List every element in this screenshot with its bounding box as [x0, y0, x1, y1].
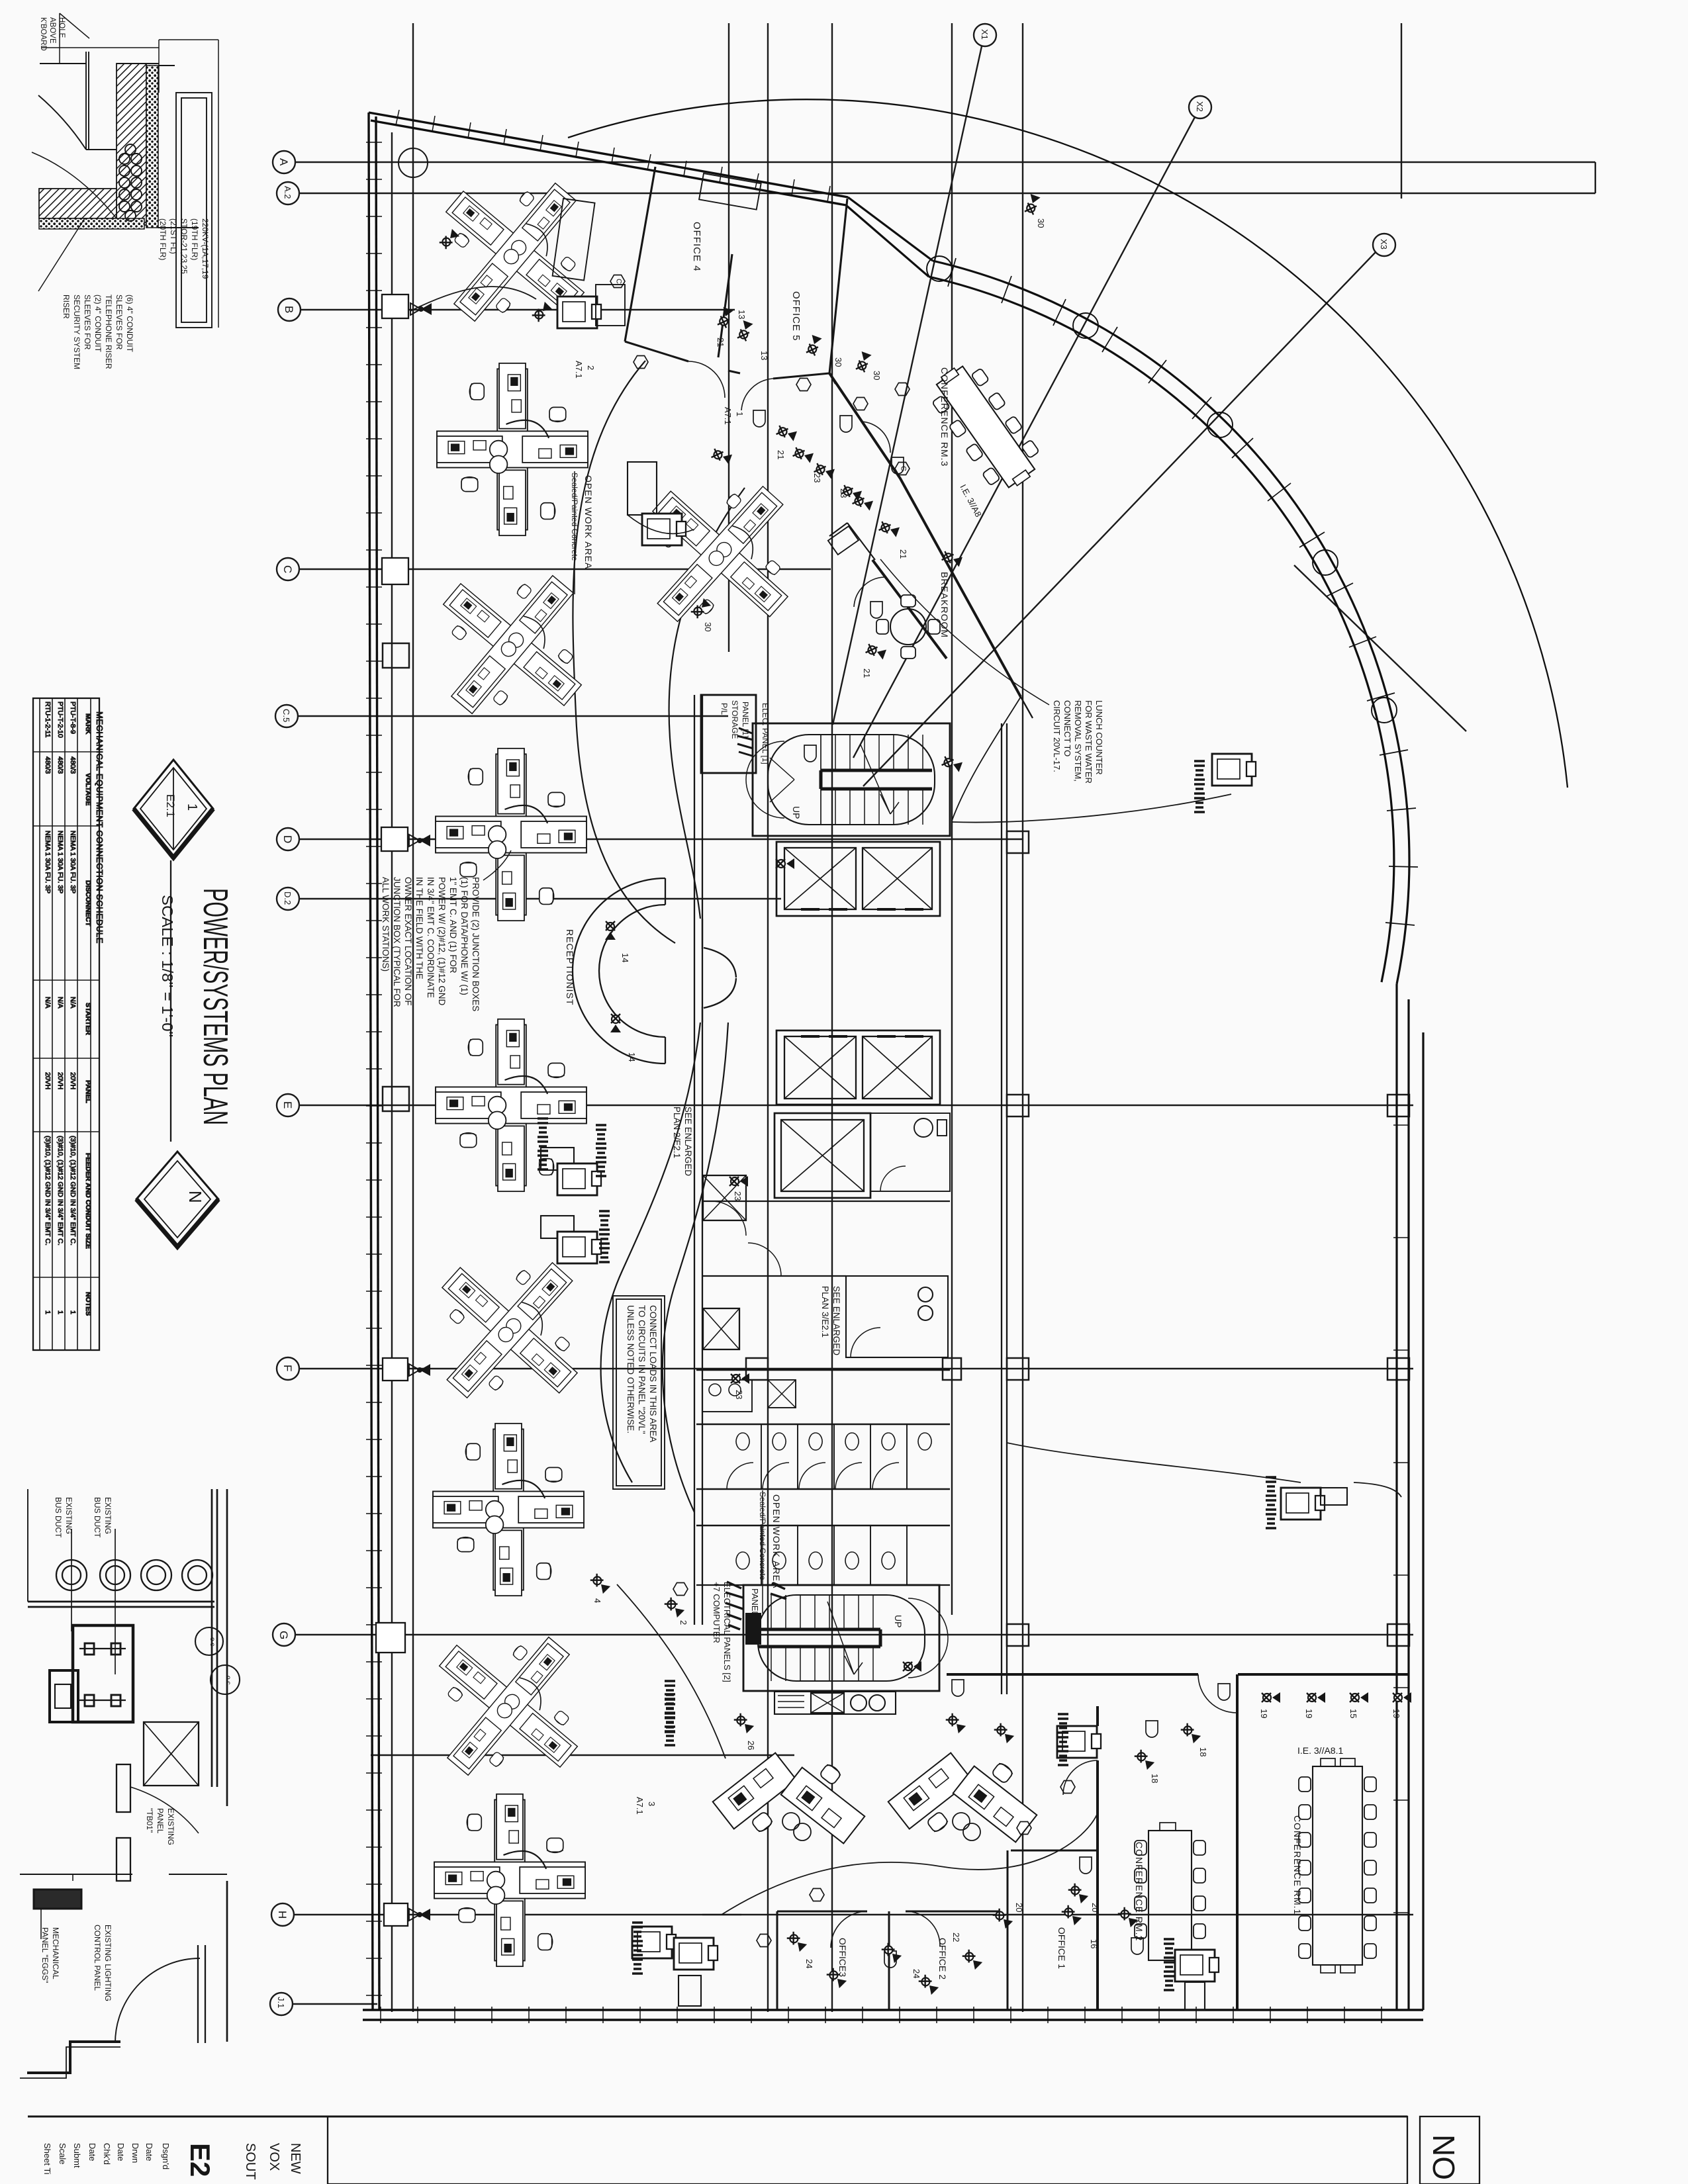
svg-text:22: 22: [951, 1933, 961, 1942]
mid corridor walls: [702, 1201, 950, 1276]
office2 door swing: [906, 1911, 940, 1946]
svg-text:14: 14: [627, 1052, 637, 1062]
svg-text:21: 21: [898, 549, 908, 559]
lobby wall below office5: [829, 373, 835, 384]
svg-text:ABOVE: ABOVE: [48, 17, 56, 44]
svg-text:SLEEVES FOR: SLEEVES FOR: [83, 295, 92, 350]
top exterior wall: [369, 113, 655, 171]
copier group lower: [632, 1923, 718, 2006]
desk pod 4: [401, 533, 623, 755]
svg-text:21: 21: [716, 338, 726, 347]
tilted desk pair 2: [888, 1751, 1049, 1844]
RM2/RM1 divider: [1236, 1674, 1239, 2010]
svg-text:OFFICE 4: OFFICE 4: [691, 222, 702, 272]
svg-text:21: 21: [862, 668, 872, 678]
svg-text:24: 24: [912, 1969, 921, 1978]
svg-text:STOR-21,23,25: STOR-21,23,25: [179, 218, 189, 274]
svg-text:OWNER EXACT LOCATION OF: OWNER EXACT LOCATION OF: [403, 877, 413, 1006]
wedge wall B (breakroom south): [872, 560, 947, 659]
svg-text:A: A: [277, 158, 290, 166]
electrical panels note: [712, 1582, 760, 1682]
svg-text:A7.1: A7.1: [723, 407, 733, 425]
svg-text:NO: NO: [1427, 2134, 1461, 2180]
svg-text:E: E: [281, 1101, 294, 1109]
svg-text:18: 18: [1150, 1774, 1160, 1783]
hex tags A: [633, 356, 1075, 1947]
desk pod 9: [397, 1595, 619, 1817]
desk pod 2: [437, 363, 588, 535]
stepped wall near title block: [27, 2042, 120, 2073]
svg-text:ELEC. PANEL [1]: ELEC. PANEL [1]: [761, 703, 770, 764]
corridor wall segment right of lobby: [1021, 697, 1033, 718]
svg-text:2: 2: [679, 1620, 688, 1625]
transformer box large: [73, 1625, 133, 1722]
svg-text:OFFICE 1: OFFICE 1: [1056, 1927, 1067, 1969]
tilted desk pair 1: [713, 1752, 877, 1844]
S-curve circulation right: [669, 488, 745, 919]
equipment at wall line C: [382, 558, 408, 584]
svg-text:PTU-T-8-9: PTU-T-8-9: [69, 702, 77, 734]
svg-text:UP: UP: [791, 806, 802, 819]
svg-text:(3)#10, (1)#12 GND IN 3/4" EMT: (3)#10, (1)#12 GND IN 3/4" EMT C.: [44, 1136, 52, 1246]
svg-text:HOLE: HOLE: [58, 17, 66, 38]
vertical grid lines: [391, 132, 393, 2012]
svg-text:(3)#10, (1)#12 GND IN 3/4" EMT: (3)#10, (1)#12 GND IN 3/4" EMT C.: [69, 1136, 77, 1246]
reception desk: [573, 878, 665, 1064]
panel block at stair2: [665, 1582, 786, 1745]
svg-text:1: 1: [69, 1310, 77, 1314]
conduit note text: [62, 295, 134, 369]
svg-text:OPEN WORK AREA: OPEN WORK AREA: [771, 1494, 782, 1588]
panel scribble: [737, 728, 753, 756]
RM3 door swing: [861, 422, 890, 453]
svg-text:15: 15: [1348, 1709, 1358, 1718]
svg-text:13: 13: [759, 351, 769, 360]
svg-text:18: 18: [1198, 1747, 1208, 1756]
svg-text:EXISTING: EXISTING: [103, 1497, 113, 1534]
svg-text:Date: Date: [116, 2143, 126, 2161]
svg-text:(21ST FL): (21ST FL): [169, 218, 178, 254]
grid line J.1: [270, 1993, 377, 2015]
svg-text:BUS DUCT: BUS DUCT: [93, 1497, 102, 1538]
lavatory room top: [696, 1369, 950, 1371]
svg-text:MECHANICAL EQUIPMENT CONNECTIO: MECHANICAL EQUIPMENT CONNECTION SCHEDULE: [95, 711, 105, 944]
facade column bubbles: [927, 256, 1397, 723]
svg-text:20VH: 20VH: [44, 1072, 52, 1089]
svg-text:OFFICE 5: OFFICE 5: [790, 291, 802, 341]
svg-text:E2.1: E2.1: [164, 794, 177, 817]
svg-text:Scale: Scale: [58, 2143, 68, 2165]
grid line C: [277, 558, 831, 580]
S-curve circulation left: [573, 361, 675, 943]
offices 4-5 front wall: [625, 341, 829, 379]
core left wall: [694, 695, 695, 1625]
equipment at wall line F: [383, 1358, 430, 1381]
panels on wall: [117, 1764, 130, 1812]
janitor room: [846, 1276, 948, 1357]
corridor wall at conference rooms: [947, 1673, 1409, 1676]
svg-text:16: 16: [1089, 1939, 1099, 1948]
connect loads note box: [613, 1296, 665, 1489]
breakroom door: [854, 577, 884, 607]
mechanical panel dark: [34, 1889, 81, 1909]
svg-text:23: 23: [734, 1390, 744, 1399]
svg-text:B: B: [283, 306, 295, 313]
svg-text:14: 14: [620, 953, 630, 962]
svg-text:RECEPTIONIST: RECEPTIONIST: [565, 929, 575, 1005]
svg-text:IN 3/4" EMT C. COORDINATE: IN 3/4" EMT C. COORDINATE: [426, 877, 436, 998]
svg-text:480/3: 480/3: [44, 756, 52, 774]
grid line C.5: [275, 705, 728, 727]
RM2 door swing: [1063, 1760, 1098, 1795]
curved glass facade: [846, 197, 1409, 984]
A/A.2 end connector: [1595, 162, 1596, 193]
svg-text:N: N: [185, 1191, 205, 1203]
svg-text:H: H: [276, 1911, 289, 1919]
hatched wall horizontal band: [39, 189, 117, 218]
svg-text:RISER: RISER: [62, 295, 71, 319]
svg-text:TELEPHONE RISER: TELEPHONE RISER: [104, 295, 113, 369]
office3 left wall: [776, 1911, 778, 2010]
svg-text:NEMA 1 30A FU. 3P: NEMA 1 30A FU. 3P: [44, 831, 52, 893]
desk pod 1: [404, 141, 626, 363]
section line lower right: [1294, 565, 1466, 731]
grid line B: [278, 298, 735, 321]
svg-text:N/A: N/A: [56, 997, 64, 1009]
svg-text:23: 23: [812, 473, 822, 482]
elevator bank 1: [776, 842, 940, 916]
office5 door swing: [741, 379, 773, 410]
svg-text:OFFICE3: OFFICE3: [837, 1938, 848, 1977]
svg-text:A7.1: A7.1: [574, 361, 584, 379]
svg-text:24: 24: [804, 1959, 814, 1968]
svg-text:SEE ENLARGED: SEE ENLARGED: [831, 1286, 841, 1355]
svg-text:+7 COMPUTER: +7 COMPUTER: [712, 1582, 722, 1643]
conference table RM2: [1135, 1823, 1205, 1960]
svg-text:Dsgn'd: Dsgn'd: [161, 2143, 171, 2169]
RM1 door swing: [1198, 1674, 1237, 1713]
left exterior wall: [369, 113, 379, 2010]
svg-text:DISCONNECT: DISCONNECT: [84, 880, 92, 927]
svg-text:MECHANICAL: MECHANICAL: [51, 1927, 60, 1979]
south toilet row: [761, 1525, 907, 1585]
svg-text:STORAGE: STORAGE: [730, 700, 739, 739]
elevator 3: [774, 1113, 870, 1198]
svg-text:J.1: J.1: [276, 1997, 286, 2008]
entry batwing doors: [702, 919, 736, 1023]
svg-text:NEMA 1 30A FU. 3P: NEMA 1 30A FU. 3P: [56, 831, 64, 893]
desk pod 3: [609, 443, 831, 665]
room walls: [20, 1489, 227, 2042]
office4 door swing: [688, 361, 725, 398]
svg-text:PANEL: PANEL: [156, 1808, 165, 1834]
right exterior wall: [1397, 984, 1423, 2010]
svg-text:FOR WASTE WATER: FOR WASTE WATER: [1084, 700, 1094, 784]
see enlarged plan 2: [672, 1107, 693, 1176]
shaft closet left 2: [703, 1308, 739, 1349]
svg-text:I.E. 3//A8.1: I.E. 3//A8.1: [1297, 1745, 1343, 1756]
svg-text:SCALE : 1/8" = 1'-0": SCALE : 1/8" = 1'-0": [159, 895, 176, 1037]
elec panel storage label: [761, 703, 770, 764]
device symbols scattered: [439, 194, 1411, 1995]
svg-text:PTU-T-2-10: PTU-T-2-10: [56, 702, 64, 738]
detail diamond E2.1: [134, 760, 213, 858]
oval door tags: [753, 410, 1230, 1968]
bottom exterior wall: [363, 2010, 1423, 2020]
equipment office1 corner: [1057, 1714, 1101, 1765]
shaft closet left 1: [703, 1175, 746, 1220]
svg-text:20VH: 20VH: [56, 1072, 64, 1089]
svg-text:VOLTAGE: VOLTAGE: [84, 773, 92, 805]
svg-text:POWER W/ (2)#12, (1)#12 GND: POWER W/ (2)#12, (1)#12 GND: [437, 877, 447, 1006]
svg-text:20: 20: [1014, 1903, 1024, 1912]
toilet room right of elevator 3: [870, 1113, 950, 1191]
svg-text:220KV-(1A,17,19: 220KV-(1A,17,19: [201, 218, 210, 279]
svg-text:20VH: 20VH: [69, 1072, 77, 1089]
equipment at wall line G: [376, 1623, 405, 1653]
junction box note: [381, 850, 511, 1011]
svg-text:1" EMT C. AND (1) FOR: 1" EMT C. AND (1) FOR: [448, 877, 458, 974]
svg-text:N/A: N/A: [44, 997, 52, 1009]
lunch counter note: [880, 559, 1104, 784]
stair 1: [746, 723, 950, 836]
outer floor-slab arc: [568, 99, 1568, 788]
shaft X-box: [144, 1722, 199, 1786]
door arc bottom: [115, 1958, 200, 2043]
toilet block: [696, 1370, 950, 1585]
storage room top-left of core: [701, 695, 756, 773]
svg-text:SOUT: SOUT: [243, 2143, 258, 2180]
printer upper right: [1194, 754, 1256, 812]
svg-text:(6) 4" CONDUIT: (6) 4" CONDUIT: [125, 295, 134, 353]
svg-text:SECURITY SYSTEM: SECURITY SYSTEM: [72, 295, 81, 369]
printer RM1 wall: [1266, 1477, 1347, 1528]
svg-text:POWER/SYSTEMS PLAN: POWER/SYSTEMS PLAN: [196, 888, 234, 1125]
grid line G.8: [371, 1754, 794, 1756]
radial bubble X2: [853, 96, 1211, 758]
breakroom counter: [828, 523, 875, 560]
svg-text:F: F: [281, 1365, 294, 1371]
svg-text:CONFERENCE RM.3: CONFERENCE RM.3: [939, 367, 950, 467]
svg-text:(3)#10, (1)#12 GND IN 3/4" EMT: (3)#10, (1)#12 GND IN 3/4" EMT C.: [56, 1136, 64, 1246]
grid line D.2: [277, 887, 781, 910]
svg-text:EXISTING: EXISTING: [64, 1497, 73, 1534]
svg-text:G: G: [277, 1631, 290, 1639]
svg-text:1: 1: [185, 803, 199, 811]
meter circles: [195, 1627, 240, 1694]
svg-text:EXISTING LIGHTING: EXISTING LIGHTING: [103, 1925, 113, 2001]
grid line A.2: [277, 182, 1595, 205]
svg-text:Date: Date: [144, 2143, 154, 2161]
conference table RM3: [923, 355, 1048, 498]
svg-text:CONFERENCE RM.2: CONFERENCE RM.2: [1134, 1842, 1145, 1941]
svg-text:26: 26: [746, 1741, 756, 1750]
svg-text:20: 20: [1090, 1903, 1100, 1912]
desk pod 7: [399, 1219, 621, 1441]
svg-text:A7.1: A7.1: [635, 1797, 645, 1815]
copier group mid-left: [628, 462, 694, 545]
svg-text:E2: E2: [185, 2143, 216, 2177]
svg-text:1: 1: [735, 412, 745, 416]
svg-text:C: C: [615, 279, 623, 284]
texts: [40, 1808, 175, 2001]
svg-text:SLEEVES FOR: SLEEVES FOR: [115, 295, 124, 350]
svg-text:VOX: VOX: [267, 2143, 281, 2171]
svg-text:4: 4: [592, 1598, 602, 1603]
svg-text:3: 3: [647, 1801, 657, 1806]
office 5 right wall: [829, 199, 847, 373]
svg-text:19: 19: [1391, 1709, 1401, 1718]
wall mullion ticks: [366, 142, 382, 1995]
stipple band bottom: [39, 218, 144, 229]
svg-text:ELECTRICAL PANELS [2]: ELECTRICAL PANELS [2]: [722, 1582, 732, 1682]
svg-text:30: 30: [703, 622, 713, 631]
small circuit number labels: [592, 218, 1401, 1978]
office3 door swing: [831, 1911, 867, 1948]
svg-text:NOTES: NOTES: [84, 1292, 92, 1316]
svg-text:D.2: D.2: [283, 891, 293, 905]
svg-text:o c: o c: [209, 1637, 216, 1646]
elevator bank 2: [776, 1030, 940, 1105]
svg-text:19: 19: [1259, 1709, 1269, 1718]
svg-text:X2: X2: [1195, 101, 1205, 112]
svg-text:CONFERENCE RM.1: CONFERENCE RM.1: [1292, 1815, 1303, 1915]
column circle at grid A/624: [399, 148, 428, 177]
svg-text:Sheet Ti: Sheet Ti: [42, 2143, 52, 2175]
svg-text:CONNECT TO: CONNECT TO: [1062, 700, 1072, 756]
svg-text:PLAN 3/E2.1: PLAN 3/E2.1: [820, 1286, 830, 1338]
svg-text:CONTROL PANEL: CONTROL PANEL: [93, 1925, 102, 1991]
transformer box small: [50, 1670, 78, 1722]
offices 2-3 front wall: [777, 1911, 1000, 1913]
radial bubble X1: [833, 24, 996, 725]
svg-text:X3: X3: [1379, 239, 1389, 250]
svg-text:UNLESS NOTED OTHERWISE.: UNLESS NOTED OTHERWISE.: [626, 1305, 635, 1433]
svg-text:TO CIRCUITS IN PANEL "20VL": TO CIRCUITS IN PANEL "20VL": [637, 1305, 647, 1434]
grid line F: [277, 1357, 1413, 1380]
svg-text:N/A: N/A: [69, 997, 77, 1009]
svg-text:NEW: NEW: [288, 2143, 303, 2174]
radial bubble X3: [863, 234, 1395, 786]
wedge wall A (RM3 front): [829, 373, 1021, 697]
svg-text:Submt: Submt: [72, 2143, 82, 2168]
svg-text:STARTER: STARTER: [84, 1003, 92, 1035]
RM2 left wall: [1096, 1706, 1099, 2010]
svg-text:JUNCTION BOX (TYPICAL FOR: JUNCTION BOX (TYPICAL FOR: [392, 877, 402, 1007]
desk pod 5: [436, 749, 586, 921]
hatched wall vertical band: [117, 64, 146, 225]
equipment at wall line D: [381, 827, 430, 851]
svg-text:OPEN WORK AREA: OPEN WORK AREA: [583, 475, 594, 569]
svg-text:SEE ENLARGED: SEE ENLARGED: [683, 1107, 693, 1176]
svg-text:PROVIDE (2) JUNCTION BOXES: PROVIDE (2) JUNCTION BOXES: [471, 877, 481, 1011]
stipple band right: [146, 66, 158, 228]
svg-text:30: 30: [872, 371, 882, 380]
svg-text:21: 21: [776, 450, 786, 459]
svg-text:CIRCUIT 20VL-17.: CIRCUIT 20VL-17.: [1052, 700, 1062, 772]
grid line E: [277, 1094, 1413, 1116]
svg-text:PLAN 2/E2.1: PLAN 2/E2.1: [672, 1107, 682, 1158]
plotter pair mid: [538, 1118, 610, 1263]
svg-text:EXISTING: EXISTING: [166, 1808, 175, 1845]
svg-text:RTU-1-2-11: RTU-1-2-11: [44, 702, 52, 738]
svg-text:23: 23: [839, 488, 849, 498]
desk pod 6: [436, 1019, 586, 1191]
outline lines: [32, 13, 218, 328]
svg-text:LUNCH COUNTER: LUNCH COUNTER: [1094, 700, 1104, 775]
svg-text:PANEL: PANEL: [84, 1080, 92, 1103]
riser tag text: [158, 218, 210, 279]
equipment at wall line H: [384, 1903, 430, 1926]
core right wall: [1001, 723, 1002, 1694]
svg-text:Chk'd: Chk'd: [102, 2143, 112, 2165]
svg-text:D: D: [281, 835, 294, 843]
grid line H: [271, 1903, 1413, 1926]
svg-text:(19TH FLR): (19TH FLR): [190, 218, 199, 260]
svg-text:(2) 4" CONDUIT: (2) 4" CONDUIT: [93, 295, 103, 353]
svg-text:30: 30: [1036, 218, 1046, 228]
see enlarged plan 3: [820, 1286, 841, 1355]
office1 top wall: [1011, 1850, 1098, 1852]
north diamond: [136, 1152, 218, 1247]
window wall top (offices): [654, 163, 848, 205]
svg-text:FEEDER AND CONDUIT SIZE: FEEDER AND CONDUIT SIZE: [84, 1153, 92, 1249]
svg-text:C.5: C.5: [281, 709, 291, 722]
leader text top: [39, 17, 66, 51]
breakroom round table: [876, 595, 940, 659]
office2/3 divider: [888, 1911, 890, 2010]
svg-text:"TB01": "TB01": [145, 1808, 154, 1833]
grid line A: [273, 151, 1595, 173]
svg-text:IN THE FIELD WITH THE: IN THE FIELD WITH THE: [414, 877, 424, 979]
svg-text:REMOVAL SYSTEM,: REMOVAL SYSTEM,: [1073, 700, 1083, 782]
svg-text:PANEL "EGGS": PANEL "EGGS": [40, 1927, 50, 1983]
office 4/5 divider: [718, 254, 732, 357]
svg-text:UP: UP: [893, 1615, 904, 1627]
svg-text:CONNECT LOADS IN THIS AREA: CONNECT LOADS IN THIS AREA: [648, 1305, 658, 1442]
equipment at wall line B: [382, 295, 432, 318]
svg-text:K'BOARD: K'BOARD: [39, 17, 47, 51]
bus duct circles: [56, 1529, 212, 1674]
svg-text:BUS DUCT: BUS DUCT: [54, 1497, 63, 1538]
wavy circuit curves: [410, 287, 1401, 1915]
svg-text:I.E. 3//A8: I.E. 3//A8: [958, 482, 983, 518]
svg-text:P/L: P/L: [720, 703, 729, 715]
S-curve lower: [601, 1023, 700, 1482]
svg-text:1: 1: [56, 1310, 64, 1314]
printer RM2: [1164, 1939, 1219, 2010]
stair 2: [743, 1585, 948, 1691]
desk pod 10: [434, 1794, 585, 1966]
corridor wall stub left of office3: [702, 1914, 741, 1915]
svg-text:ALL WORK STATIONS): ALL WORK STATIONS): [381, 877, 391, 972]
grid line G: [273, 1623, 1413, 1646]
svg-text:C: C: [281, 565, 294, 573]
office1 left wall: [1007, 1850, 1009, 2010]
svg-text:30: 30: [833, 357, 843, 367]
svg-text:A.2: A.2: [283, 186, 293, 199]
svg-text:X1: X1: [980, 29, 990, 40]
svg-text:480/3: 480/3: [56, 756, 64, 774]
svg-text:Drwn: Drwn: [130, 2143, 140, 2163]
bus duct labels: [54, 1497, 113, 1538]
office window detail: [699, 173, 761, 210]
svg-text:1: 1: [44, 1310, 52, 1314]
center double wall: [696, 1489, 950, 1525]
svg-text:OFFICE 2: OFFICE 2: [937, 1938, 948, 1979]
svg-text:(1) FOR DATA/PHONE W/ (1): (1) FOR DATA/PHONE W/ (1): [459, 877, 469, 995]
grid line D: [277, 828, 1023, 850]
